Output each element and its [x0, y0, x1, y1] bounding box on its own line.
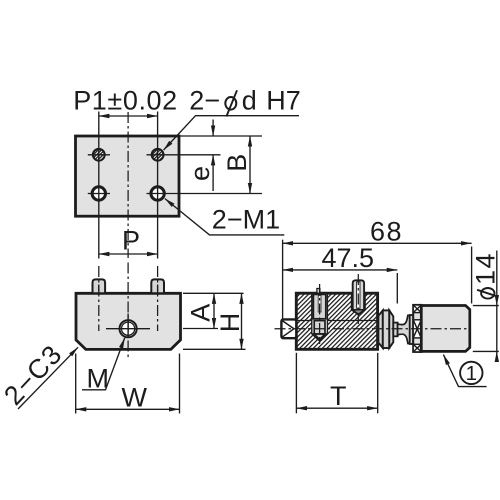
nut left face — [378, 310, 382, 348]
block body with chamfers — [76, 293, 181, 349]
crosshair hole row1 left — [88, 154, 110, 156]
dimension P1+-0.02 line — [99, 115, 158, 117]
crosshair hole row2 right + B reference — [147, 193, 263, 195]
svg-text:14: 14 — [471, 252, 500, 285]
plunger pin left — [313, 294, 325, 318]
extension phi14 bottom — [473, 350, 499, 352]
pin left — [93, 279, 106, 293]
pin tip left (cone) — [281, 319, 296, 338]
dimension phi14 middle segment — [496, 306, 498, 352]
knurl X top — [413, 305, 421, 313]
dimension B line — [249, 136, 251, 194]
svg-text:A: A — [186, 304, 216, 322]
extension W left — [75, 354, 77, 414]
dimension P line — [99, 253, 158, 255]
dimension phi14 lower leg — [496, 351, 498, 360]
nut middle face — [383, 310, 390, 348]
plunger pin left slot — [318, 296, 321, 313]
plunger pin right tip — [353, 310, 364, 314]
dimension W line — [76, 408, 180, 410]
dimension A line — [213, 293, 215, 328]
extension line: plate top edge to right — [179, 135, 262, 137]
extension top edge right — [183, 292, 244, 294]
flange — [410, 315, 414, 344]
centerline plunger right — [357, 274, 359, 327]
pin tip cone lines — [283, 321, 294, 329]
svg-text:47.5: 47.5 — [322, 243, 375, 273]
extension hole center right — [183, 328, 218, 330]
plunger channel left — [312, 293, 328, 341]
hole top-left (2-phi d H7) — [93, 149, 105, 161]
hole bottom-left (2-M1) — [92, 187, 105, 200]
svg-text:H7: H7 — [266, 86, 301, 116]
dimension e upper leg — [212, 120, 214, 137]
block split line — [298, 320, 377, 322]
svg-text:68: 68 — [370, 216, 403, 246]
knob body — [421, 306, 470, 352]
pin right — [151, 279, 164, 293]
label phi14 — [471, 252, 500, 299]
svg-text:W: W — [122, 383, 148, 413]
dimension e lower leg — [212, 155, 214, 191]
svg-text:2−: 2− — [189, 86, 220, 116]
centerline pin right — [157, 266, 159, 331]
svg-text:T: T — [330, 381, 347, 411]
hole bottom-right (2-M1) — [151, 187, 164, 200]
extension T right — [377, 353, 379, 414]
dimension H line — [241, 293, 243, 349]
centerline column 1 — [98, 112, 100, 259]
plate body — [76, 136, 180, 216]
svg-text:P: P — [122, 226, 140, 256]
dimension 47.5 line — [283, 269, 398, 271]
pin left stem — [317, 289, 320, 294]
extension 68/47.5 left — [282, 240, 284, 320]
svg-text:P1±0.02: P1±0.02 — [73, 86, 178, 116]
leader 2-M1 — [165, 199, 284, 235]
plunger pin right slot — [357, 282, 360, 309]
block section hatched — [296, 293, 377, 349]
extension T left — [295, 353, 297, 414]
plunger pin left point — [314, 334, 325, 340]
svg-text:2−M1: 2−M1 — [212, 205, 280, 235]
extension bottom edge right — [183, 348, 246, 350]
shaft cylinder — [393, 323, 397, 337]
knurl X bottom — [413, 344, 421, 352]
hole M inner — [122, 322, 135, 335]
shaft waist and bell — [398, 315, 410, 343]
knurl band — [413, 305, 421, 352]
pin right slot mark — [157, 285, 159, 292]
centerline plunger left — [319, 284, 321, 344]
knurl X middle — [413, 320, 421, 338]
crosshair hole row1 right + e reference — [147, 154, 221, 156]
svg-text:e: e — [185, 166, 215, 181]
extension 68 right — [471, 247, 473, 304]
extension phi14 top — [473, 305, 499, 307]
svg-text:H: H — [215, 313, 245, 333]
centerline middle — [127, 263, 129, 360]
centerline column 2 — [157, 112, 159, 259]
svg-text:d: d — [242, 86, 257, 116]
balloon leader — [443, 355, 486, 387]
crosshair hole row2 left — [88, 193, 110, 195]
extension 47.5 right — [396, 273, 398, 304]
main centerline — [275, 328, 468, 330]
nut right face — [389, 310, 393, 348]
svg-text:2−C3: 2−C3 — [0, 339, 68, 411]
dimension T line — [296, 407, 377, 409]
pin left slot mark — [98, 285, 100, 292]
leader M underline — [82, 338, 125, 390]
hole top-right (2-phi d H7) — [152, 149, 164, 161]
plunger channel right — [352, 293, 366, 314]
centerline pin left — [98, 266, 100, 331]
hole M crosshair — [106, 328, 150, 330]
svg-text:B: B — [222, 154, 252, 172]
plunger pin right — [353, 280, 364, 310]
extension W right — [179, 354, 181, 414]
dimension phi14 upper leg — [496, 251, 498, 306]
dimension 68 line — [283, 242, 472, 244]
leader 2-phi d H7 with shelf — [164, 116, 299, 150]
svg-text:1: 1 — [466, 362, 477, 385]
leader 2-C3 — [18, 347, 78, 409]
plate vertical centerline — [127, 112, 129, 258]
plunger pin left step — [314, 321, 325, 334]
balloon circle 1 — [460, 362, 482, 384]
hole M outer — [120, 320, 137, 337]
